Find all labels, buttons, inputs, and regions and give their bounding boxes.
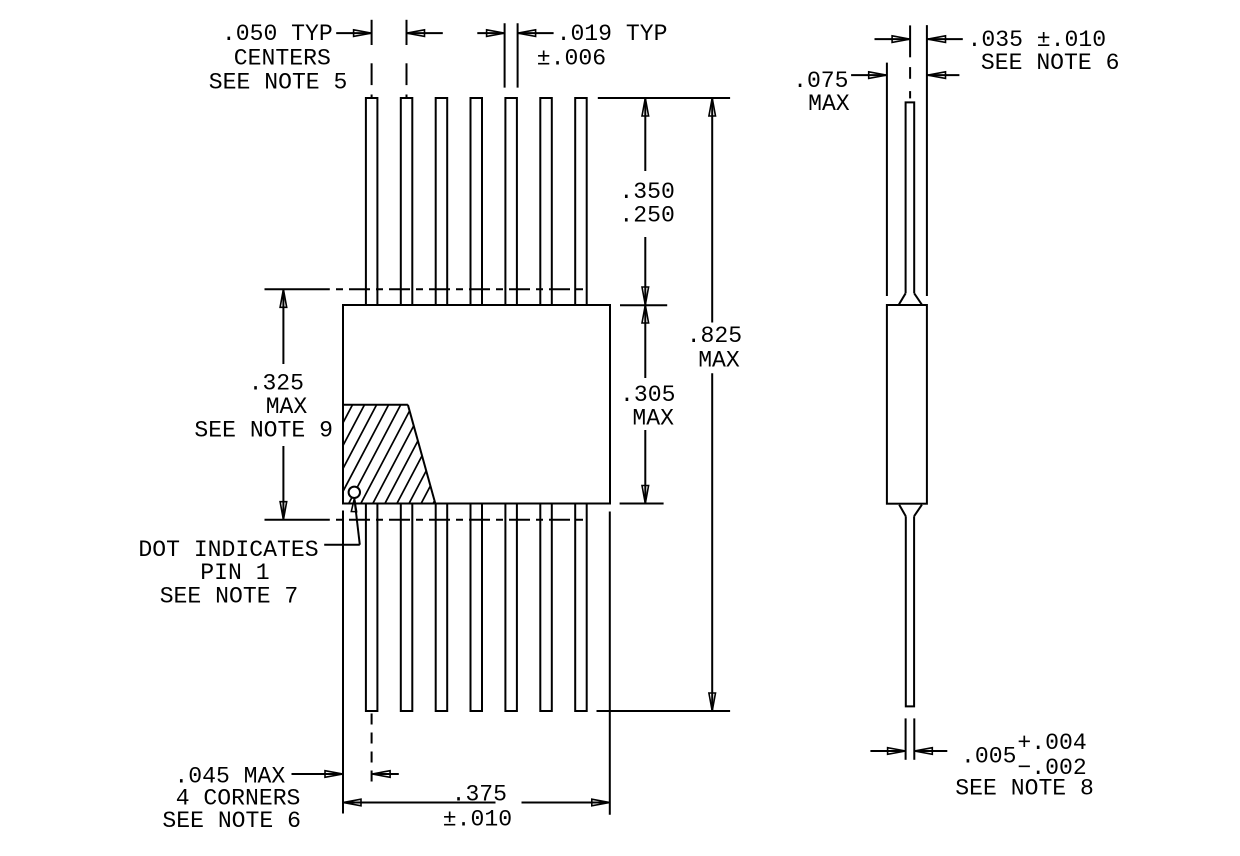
extension line at lead tips bottom <box>597 710 731 712</box>
svg-text:SEE NOTE 7: SEE NOTE 7 <box>160 583 299 609</box>
svg-text:.350: .350 <box>619 179 674 205</box>
extension line at lead tips top <box>598 97 730 99</box>
dimension .005 arrows <box>870 750 905 752</box>
dimension .045 arrows <box>292 773 344 775</box>
package body (side view) <box>887 305 927 504</box>
lead centerline (side view, dashed) <box>909 25 911 57</box>
svg-text:SEE NOTE 8: SEE NOTE 8 <box>955 775 1094 801</box>
svg-text:.035 ±.010: .035 ±.010 <box>968 27 1107 53</box>
centerline of top lead row <box>265 288 330 290</box>
upper lead flare <box>899 293 906 304</box>
index area hatch boundary (top view) <box>343 404 408 406</box>
extension line body left down <box>342 511 344 814</box>
svg-text:.305: .305 <box>620 382 675 408</box>
svg-text:SEE NOTE 6: SEE NOTE 6 <box>981 50 1120 76</box>
extension line at body bottom right <box>620 503 664 505</box>
index area hatch lines <box>285 400 488 510</box>
lead 4 bottom row (top view) <box>471 504 483 712</box>
lead 1 top row (top view) <box>366 98 378 305</box>
dimension .350/.250 line and arrows <box>644 98 646 171</box>
svg-text:±.006: ±.006 <box>537 46 606 72</box>
lead 7 bottom row (top view) <box>575 504 587 712</box>
extension lines lead thickness <box>905 718 907 759</box>
lead 6 top row (top view) <box>540 98 552 305</box>
svg-text:.375: .375 <box>452 781 507 807</box>
lower lead (side view) <box>906 516 914 706</box>
extension line pin 2 center (dashed) <box>406 20 408 45</box>
svg-text:SEE NOTE 5: SEE NOTE 5 <box>209 69 348 95</box>
package body outline (top view) <box>343 305 610 504</box>
leader from DOT INDICATES to pin 1 dot <box>324 544 360 546</box>
extension line body right down <box>609 512 611 815</box>
svg-text:.075: .075 <box>793 68 848 94</box>
lead 1 bottom row (top view) <box>366 504 378 712</box>
svg-text:MAX: MAX <box>266 394 308 420</box>
svg-text:CENTERS: CENTERS <box>234 45 331 71</box>
lead 3 top row (top view) <box>436 98 448 305</box>
lower lead flare <box>899 505 906 517</box>
svg-text:SEE NOTE 6: SEE NOTE 6 <box>162 808 301 834</box>
svg-text:DOT INDICATES: DOT INDICATES <box>138 537 318 563</box>
extension line side view left <box>886 63 888 296</box>
extension line pin 1 center bottom (dashed) <box>371 714 373 784</box>
lead 7 top row (top view) <box>575 98 587 305</box>
svg-text:MAX: MAX <box>632 405 674 431</box>
svg-text:MAX: MAX <box>808 91 850 117</box>
svg-text:.019 TYP: .019 TYP <box>557 21 668 47</box>
svg-text:+.004: +.004 <box>1017 730 1086 756</box>
dimension .075 leader arrow <box>851 74 887 76</box>
dimension .325 MAX line and arrows <box>282 289 284 364</box>
centerline of bottom lead row <box>265 519 330 521</box>
svg-text:.050 TYP: .050 TYP <box>222 21 333 47</box>
dimension .050 TYP leader arrows <box>336 32 371 34</box>
svg-text:SEE NOTE 9: SEE NOTE 9 <box>194 418 333 444</box>
svg-text:MAX: MAX <box>698 348 740 374</box>
extension line pin 1 center (dashed) <box>371 20 373 45</box>
dimension .035 arrows <box>875 38 911 40</box>
pin 1 index dot <box>349 487 360 498</box>
svg-text:.325: .325 <box>249 370 304 396</box>
dimension .019 TYP arrows <box>477 32 504 34</box>
extension lines pin 5 edges <box>504 23 506 87</box>
extension line side view right <box>926 25 928 296</box>
upper lead (side view) <box>906 102 915 293</box>
extension line at body top right <box>620 304 667 306</box>
second .035 arrow row <box>928 74 960 76</box>
dimension .825 MAX line and arrows <box>711 98 713 323</box>
lead 6 bottom row (top view) <box>540 504 552 712</box>
svg-text:.825: .825 <box>687 323 742 349</box>
lead 5 bottom row (top view) <box>505 504 517 712</box>
svg-text:.250: .250 <box>619 203 674 229</box>
svg-text:.005: .005 <box>961 744 1016 770</box>
svg-text:PIN 1: PIN 1 <box>200 560 269 586</box>
lead 2 bottom row (top view) <box>401 504 413 712</box>
lead 3 bottom row (top view) <box>436 504 448 712</box>
svg-text:±.010: ±.010 <box>443 807 512 833</box>
dimension .305 MAX line and arrows <box>644 305 646 378</box>
dimension .375 line and arrows <box>343 802 496 804</box>
lead 4 top row (top view) <box>471 98 483 305</box>
lead 2 top row (top view) <box>401 98 413 305</box>
lead 5 top row (top view) <box>505 98 517 305</box>
